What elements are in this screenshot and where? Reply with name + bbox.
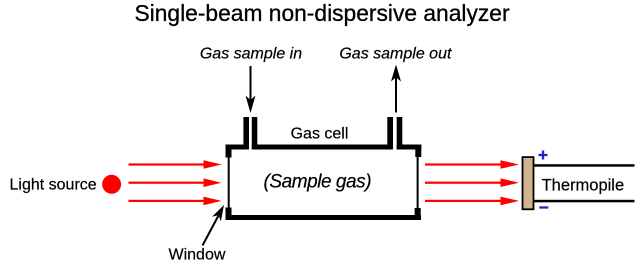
svg-text:Gas sample in: Gas sample in xyxy=(200,46,302,63)
svg-text:Gas cell: Gas cell xyxy=(291,126,349,143)
svg-text:(Sample gas): (Sample gas) xyxy=(264,172,372,193)
svg-text:Thermopile: Thermopile xyxy=(542,176,625,194)
svg-text:Window: Window xyxy=(169,247,226,264)
svg-text:Single-beam non-dispersive ana: Single-beam non-dispersive analyzer xyxy=(134,0,509,26)
svg-text:Light source: Light source xyxy=(10,176,97,193)
svg-text:Gas sample out: Gas sample out xyxy=(339,46,452,63)
